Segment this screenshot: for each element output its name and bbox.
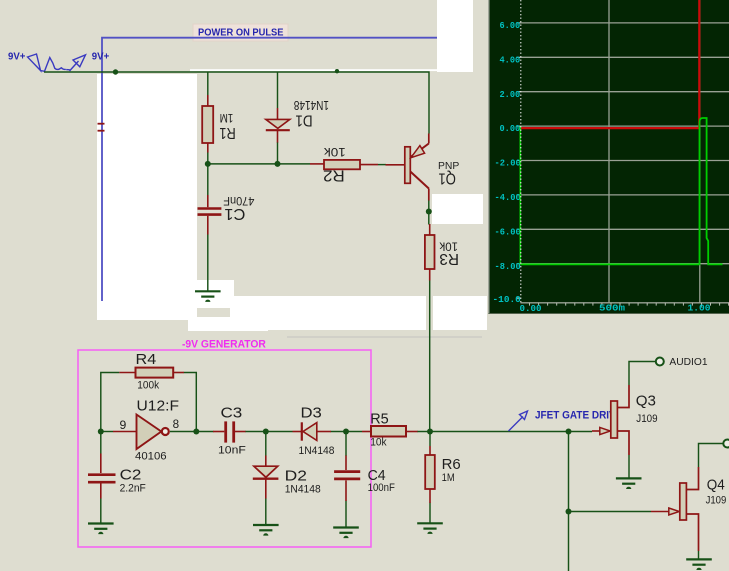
POWER ON PULSE label box	[193, 24, 288, 41]
svg-text:0.00: 0.00	[500, 124, 521, 134]
svg-text:10k: 10k	[370, 437, 387, 449]
svg-text:470nF: 470nF	[223, 194, 254, 206]
ground C2	[88, 524, 114, 535]
capacitor C3	[213, 421, 246, 442]
red trace	[521, 0, 700, 128]
node C (C3/D3/D2)	[263, 429, 269, 435]
svg-text:1.00: 1.00	[688, 303, 711, 313]
svg-text:Q3: Q3	[636, 392, 656, 409]
svg-text:1N4148: 1N4148	[285, 484, 321, 496]
rail to D1	[277, 72, 279, 108]
faint gray line	[287, 336, 482, 338]
svg-text:2.00: 2.00	[500, 90, 521, 100]
svg-text:40106: 40106	[135, 450, 167, 462]
ground D2	[253, 525, 279, 536]
resistor R4	[119, 368, 184, 378]
C1 labels (rotated)	[223, 194, 254, 222]
9V rail	[44, 72, 429, 134]
svg-text:2.2nF: 2.2nF	[120, 483, 146, 495]
node row horizontal	[208, 163, 310, 165]
green trace	[519, 127, 521, 265]
node to C1	[207, 164, 209, 196]
svg-text:1N4148: 1N4148	[294, 98, 329, 113]
svg-text:AUDIO1: AUDIO1	[669, 357, 708, 368]
svg-text:C3: C3	[221, 405, 243, 422]
svg-text:D3: D3	[301, 405, 322, 422]
svg-text:1M: 1M	[220, 111, 234, 125]
resistor R2	[310, 160, 378, 169]
R3 bottom long wire down to R5 node	[429, 280, 431, 432]
ground C4	[333, 528, 359, 539]
svg-text:JFET GATE DRIV: JFET GATE DRIV	[535, 410, 616, 422]
R4 loop	[101, 373, 120, 432]
svg-text:10nF: 10nF	[218, 445, 246, 457]
ground R6	[417, 523, 443, 534]
svg-text:C1: C1	[224, 205, 245, 222]
svg-text:4.00: 4.00	[500, 55, 521, 65]
svg-text:J109: J109	[636, 413, 657, 425]
Q4 drain up	[699, 444, 723, 468]
svg-text:R3: R3	[439, 250, 459, 267]
y labels	[493, 21, 521, 305]
grid vertical	[609, 0, 700, 303]
svg-text:C2: C2	[120, 466, 142, 483]
svg-text:10k: 10k	[323, 145, 346, 159]
svg-text:R5: R5	[370, 410, 389, 427]
Q3 drain up to AUDIO1	[629, 362, 656, 386]
grid horizontal	[521, 23, 729, 264]
D1 bottom to node row	[277, 142, 279, 164]
R2 labels (rotated)	[323, 145, 346, 184]
Q1 collector down	[428, 200, 430, 225]
node E (R5/R6/R3)	[427, 429, 433, 435]
R1 to node row	[207, 152, 209, 164]
node A (U12 input / R4 / C2)	[98, 429, 104, 435]
resistor R5	[362, 426, 418, 437]
svg-text:9: 9	[120, 418, 127, 432]
node F (Q3 gate branch)	[566, 429, 572, 435]
C1 bottom to ground	[207, 234, 209, 291]
white overlay patches	[97, 0, 487, 331]
resistor R3	[425, 224, 435, 281]
Q4 source down	[698, 551, 700, 559]
diode D3	[293, 422, 332, 440]
R2 right to Q1 base	[378, 164, 386, 166]
scribble annotation	[28, 54, 86, 71]
junction R1/C1 node	[205, 161, 211, 167]
svg-text:-4.00: -4.00	[495, 193, 521, 203]
capacitor C4	[334, 456, 360, 502]
svg-text:100k: 100k	[137, 379, 159, 391]
D2 branch	[265, 432, 267, 457]
svg-text:8: 8	[173, 417, 180, 431]
x axis	[521, 302, 729, 304]
blue subcircuit box POWER ON PULSE	[102, 38, 437, 301]
ground Q4	[686, 559, 712, 570]
node2 down to node3 and right to Q4	[569, 432, 652, 512]
terminal AUDIO1	[656, 358, 664, 366]
svg-text:0.00: 0.00	[520, 304, 542, 314]
transistor Q4 (JFET J109)	[651, 467, 699, 551]
svg-text:U12:F: U12:F	[137, 398, 180, 415]
transistor Q3 (JFET J109)	[592, 385, 629, 455]
diode D1	[266, 108, 290, 143]
svg-text:D2: D2	[285, 468, 307, 485]
Q3 source to ground	[628, 455, 630, 478]
R6 branch	[429, 432, 431, 447]
main row -9V gen	[101, 431, 113, 433]
resistor R6	[425, 446, 435, 503]
svg-text:R1: R1	[219, 124, 235, 141]
transistor Q1 (PNP)	[386, 134, 429, 201]
Q1 labels	[438, 161, 460, 186]
svg-text:R6: R6	[442, 456, 461, 473]
svg-text:POWER ON PULSE: POWER ON PULSE	[198, 28, 284, 39]
capacitor C2	[88, 454, 116, 499]
svg-text:J109: J109	[706, 495, 727, 507]
x labels	[520, 303, 711, 314]
svg-text:-6.00: -6.00	[495, 227, 521, 237]
svg-text:6.00: 6.00	[500, 21, 521, 31]
magenta subcircuit box -9V GENERATOR	[78, 350, 371, 547]
C2 branch	[100, 432, 102, 454]
svg-text:R2: R2	[323, 166, 345, 183]
svg-text:9V+: 9V+	[8, 51, 26, 62]
svg-text:Q1: Q1	[438, 169, 456, 186]
R3 labels (rotated)	[439, 239, 459, 266]
node D (D3/R5/C4)	[343, 429, 349, 435]
junction D1 node	[275, 161, 281, 167]
svg-text:-10.0: -10.0	[493, 295, 521, 305]
erased pin marks on blue line	[98, 123, 105, 125]
node3 to bottom edge	[568, 512, 570, 571]
svg-text:500m: 500m	[599, 303, 626, 313]
svg-text:1M: 1M	[442, 472, 455, 484]
ground C1	[195, 291, 221, 302]
node G (Q4 gate branch)	[566, 509, 572, 515]
svg-text:R4: R4	[136, 351, 157, 368]
svg-text:100nF: 100nF	[368, 482, 396, 494]
svg-text:-9V GENERATOR: -9V GENERATOR	[182, 339, 266, 351]
capacitor C1	[198, 195, 222, 235]
junction Q1 collector / R3 node	[426, 209, 432, 215]
svg-text:1N4148: 1N4148	[299, 445, 335, 457]
svg-text:D1: D1	[295, 111, 312, 128]
svg-text:Q4: Q4	[707, 477, 725, 494]
terminal at right edge	[723, 440, 729, 448]
node B (U12 output / R4)	[193, 429, 199, 435]
C4 branch	[345, 432, 347, 457]
rail to R1	[207, 72, 209, 95]
D1 labels (rotated)	[294, 98, 329, 128]
diode D2	[253, 456, 279, 499]
svg-text:-8.00: -8.00	[495, 262, 521, 272]
inverter U12:F	[113, 415, 169, 450]
svg-text:-2.00: -2.00	[495, 159, 521, 169]
graph panel	[489, 0, 729, 314]
resistor R1 labels (rotated)	[219, 111, 235, 141]
ground Q3	[616, 478, 642, 489]
resistor R1	[202, 95, 213, 153]
svg-text:9V+: 9V+	[92, 51, 110, 62]
